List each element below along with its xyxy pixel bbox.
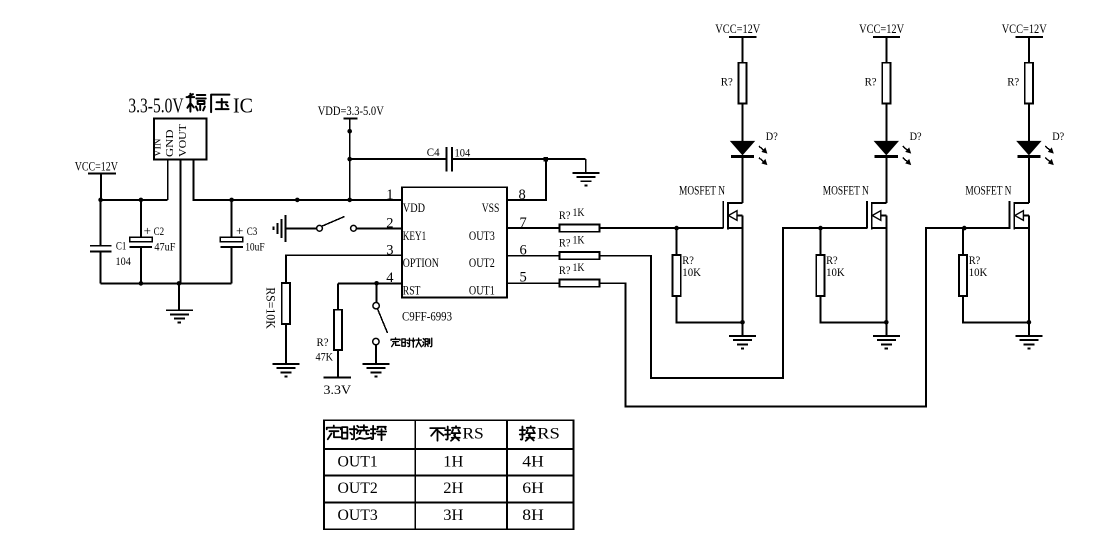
wire R47K to 3.3V [337,350,339,378]
wire OUT3 to gate Q1 [600,227,724,229]
wire RS to ground [285,324,287,364]
capacitor C2 47uF [140,200,142,238]
wire 10K to source rail (stage 1) [677,296,743,322]
wire switch to ground [375,345,377,364]
resistor R? (stage 1 pull-up) [738,63,746,104]
capacitor C4 104 [350,158,447,160]
svg-text:RS=10K: RS=10K [264,287,278,329]
node source junction (stage 3) [1027,320,1032,325]
svg-text:OUT3: OUT3 [469,228,495,243]
svg-text:10uF: 10uF [245,242,265,254]
wire source down (stage 1) [742,216,744,323]
wire source down (stage 3) [1028,216,1030,323]
node Q3 10K junction [962,226,967,231]
wire VCC to rail [100,173,102,200]
resistor R? 10K (stage 2) [819,228,821,255]
node source junction (stage 1) [740,320,745,325]
wire VIN pin [167,160,169,200]
label 定时快测 [391,338,400,347]
svg-text:VDD=3.3-5.0V: VDD=3.3-5.0V [318,104,384,118]
node C2 top junction [139,198,144,203]
svg-text:4H: 4H [522,453,544,470]
ground (stage 2) [885,322,887,336]
node C4 branch junction [347,157,352,162]
svg-text:VCC=12V: VCC=12V [859,22,904,36]
resistor R? (stage 3 pull-up) [1025,63,1033,104]
svg-text:47K: 47K [316,349,334,363]
wire pin 4 RST [338,282,402,284]
node VDD rail junction [347,198,352,203]
node Q2 10K junction [818,226,823,231]
wire RST down to R47K [337,283,339,309]
resistor R? 10K (stage 1) [676,228,678,255]
resistor RS=10K [282,283,290,324]
svg-text:OUT1: OUT1 [469,283,495,298]
node junction on rail [295,198,300,203]
wire VCC to R (stage 2) [885,37,887,63]
node source junction (stage 2) [884,320,889,325]
svg-text:C9FF-6993: C9FF-6993 [402,309,452,324]
capacitor C3 10uF [229,198,234,203]
resistor R? 47K [334,310,342,350]
wire ground to switch [285,227,316,229]
ground (timer-test) [362,363,389,365]
LED D? (stage 3) [1017,141,1040,154]
wire source down (stage 2) [885,216,887,323]
svg-text:1: 1 [386,187,393,203]
svg-text:D?: D? [910,131,922,143]
svg-text:10K: 10K [826,265,845,279]
svg-text:1K: 1K [573,233,585,247]
svg-text:VCC=12V: VCC=12V [1002,22,1047,36]
svg-text:R?: R? [1007,75,1019,89]
LED D? (stage 2) [875,141,898,154]
wire R to LED (stage 3) [1028,104,1030,142]
table header 定时选择 / 不接RS / 接RS [327,425,341,439]
svg-text:C3: C3 [247,226,258,238]
svg-text:D?: D? [1052,131,1064,143]
svg-text:104: 104 [116,256,132,268]
switch S2 timer-test [376,283,378,302]
node C2 bottom junction [139,281,144,286]
node Q1 10K junction [674,226,679,231]
svg-text:3H: 3H [443,507,463,524]
resistor R? (stage 2 pull-up) [882,63,890,104]
LED D? (stage 1) [731,141,754,154]
svg-text:+: + [144,223,151,238]
svg-text:VCC=12V: VCC=12V [75,159,118,173]
svg-text:1K: 1K [573,205,585,219]
svg-text:104: 104 [455,147,471,159]
resistor R? 1K (OUT1) [560,280,600,287]
svg-text:1K: 1K [573,260,585,274]
svg-text:KEY1: KEY1 [403,228,426,243]
wire VDD down to rail [349,119,351,200]
svg-text:IC: IC [233,94,253,118]
wire 10K to source rail (stage 2) [820,296,886,322]
svg-text:RST: RST [403,283,421,298]
svg-text:+: + [236,223,243,238]
wire pin 3 OPTION [286,255,402,283]
svg-text:OPTION: OPTION [403,255,439,270]
ground (stage 3) [1028,322,1030,336]
svg-text:R?: R? [559,236,571,250]
ground (KEY1, rotated) [284,215,286,242]
svg-text:MOSFET N: MOSFET N [679,184,725,198]
capacitor C1 104 [100,200,102,246]
svg-text:OUT1: OUT1 [338,453,378,470]
wire LED to drain (stage 1) [742,158,744,203]
resistor R? 1K (OUT3) [560,225,600,232]
svg-text:RS: RS [537,426,560,443]
wire R to LED (stage 1) [742,104,744,142]
svg-text:R?: R? [721,75,733,89]
ground (stage 1) [742,322,744,336]
wire input rail [101,199,168,201]
svg-text:8: 8 [519,187,526,203]
svg-text:2H: 2H [443,480,463,497]
node on VDD wire [347,129,352,134]
wire OUT2 route to Q2 [600,228,867,378]
wire LED to drain (stage 2) [885,158,887,203]
ground (main filter) [178,283,180,310]
svg-text:6H: 6H [522,480,544,497]
wire VCC to R (stage 1) [742,37,744,63]
node rail-left junction [98,198,103,203]
svg-text:OUT2: OUT2 [338,480,378,497]
svg-text:VCC=12V: VCC=12V [715,22,760,36]
wire pin to R-1K (OUT2) [507,255,560,257]
svg-text:8H: 8H [522,507,544,524]
svg-text:C4: C4 [427,147,440,159]
svg-text:10K: 10K [682,265,701,279]
svg-text:D?: D? [766,131,778,143]
svg-text:1H: 1H [443,453,463,470]
power 3.3V bar [324,377,351,379]
table timing options [324,420,574,529]
node regulator GND junction [177,281,182,286]
svg-text:GND: GND [164,129,176,157]
wire GND pin [179,160,181,284]
svg-text:R?: R? [559,263,571,277]
svg-text:R?: R? [865,75,877,89]
svg-text:OUT2: OUT2 [469,255,495,270]
wire pin to R-1K (OUT1) [507,282,560,284]
svg-text:VDD: VDD [403,200,425,215]
svg-text:MOSFET N: MOSFET N [965,184,1011,198]
svg-text:VSS: VSS [482,200,500,215]
wire VOUT pin to output rail [193,160,402,200]
svg-text:3.3V: 3.3V [324,383,352,397]
resistor R? 1K (OUT2) [560,252,600,259]
resistor R? 10K (stage 3) [962,228,964,255]
ground (RS) [272,363,299,365]
wire R to LED (stage 2) [885,104,887,142]
svg-text:10K: 10K [969,265,988,279]
svg-text:R?: R? [559,208,571,222]
node VSS branch junction [544,157,549,162]
svg-text:RS: RS [462,426,483,443]
wire VSS to pin 8 [507,159,546,200]
wire LED to drain (stage 3) [1028,158,1030,203]
wire 10K to source rail (stage 3) [963,296,1029,322]
svg-text:C1: C1 [116,241,127,253]
svg-text:C2: C2 [154,226,165,238]
wire cap bottom rail [101,282,232,284]
wire switch to pin 2 [356,227,402,229]
svg-text:VIN: VIN [152,138,164,157]
switch S1 KEY1 [317,225,323,231]
svg-text:VOUT: VOUT [177,124,189,157]
svg-text:OUT3: OUT3 [338,507,378,524]
wire VCC to R (stage 3) [1028,37,1030,63]
svg-text:MOSFET N: MOSFET N [823,184,869,198]
wire OUT1 route to Q3 [600,228,1011,406]
svg-text:47uF: 47uF [154,242,175,254]
svg-text:3.3-5.0V: 3.3-5.0V [128,94,183,118]
ground (C4) [585,159,587,173]
wire pin to R-1K (OUT3) [507,227,560,229]
node RST junction [374,281,379,286]
IC U1 C9FF-6993 [402,187,507,297]
svg-text:R?: R? [317,335,329,349]
